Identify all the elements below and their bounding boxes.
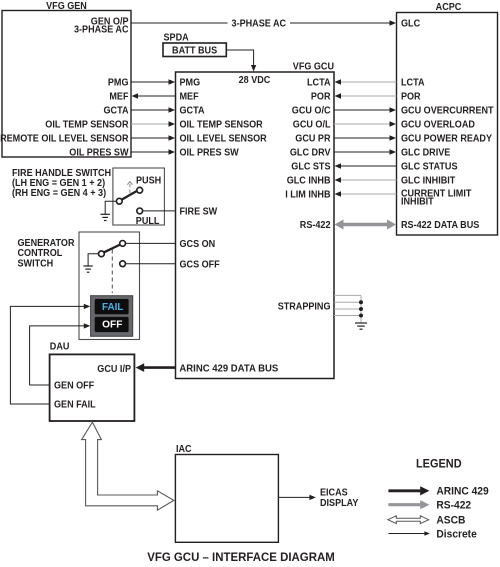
- wire strapping lines: [334, 295, 361, 322]
- indicator FAIL/OFF bezel: [91, 296, 133, 337]
- svg-text:GCU I/P: GCU I/P: [97, 364, 131, 375]
- label PULL: [136, 216, 160, 227]
- svg-text:GEN FAIL: GEN FAIL: [54, 400, 96, 411]
- switch S2 common contact: [99, 251, 105, 257]
- svg-text:OIL PRES SW: OIL PRES SW: [69, 148, 128, 159]
- label VFG GEN pins: [0, 78, 129, 159]
- wire S2 ground lead: [88, 254, 99, 266]
- svg-text:ARINC 429 DATA BUS: ARINC 429 DATA BUS: [179, 364, 278, 375]
- svg-text:RS-422: RS-422: [436, 500, 471, 512]
- label GENERATOR CONTROL SWITCH: [18, 238, 75, 270]
- svg-text:I LIM INHB: I LIM INHB: [285, 190, 331, 201]
- box BATT BUS: [163, 33, 226, 57]
- wire GCTA: [131, 107, 175, 112]
- label DAU pins: [54, 364, 131, 411]
- wire GCS ON: [125, 242, 175, 244]
- svg-text:GLC DRV: GLC DRV: [290, 148, 331, 159]
- svg-text:OIL LEVEL SENSOR: OIL LEVEL SENSOR: [180, 134, 268, 145]
- indicator FAIL cell: [94, 299, 129, 315]
- ground fire switch: [101, 214, 110, 220]
- svg-text:GCTA: GCTA: [104, 106, 129, 117]
- svg-text:GCS OFF: GCS OFF: [180, 260, 220, 271]
- svg-text:POR: POR: [311, 92, 331, 103]
- svg-text:ARINC 429: ARINC 429: [436, 485, 488, 497]
- svg-text:OFF: OFF: [102, 319, 122, 330]
- svg-text:OIL PRES SW: OIL PRES SW: [180, 148, 239, 159]
- wire OIL TEMP SENSOR: [131, 121, 175, 126]
- svg-text:GEN OFF: GEN OFF: [54, 381, 94, 392]
- svg-text:GLC INHIBIT: GLC INHIBIT: [401, 176, 456, 187]
- svg-text:GLC: GLC: [401, 19, 421, 30]
- svg-text:IAC: IAC: [176, 444, 192, 455]
- svg-text:GCTA: GCTA: [180, 106, 205, 117]
- svg-text:POR: POR: [401, 92, 421, 103]
- wire S1 ground lead: [105, 201, 116, 214]
- wire EICAS DISPLAY: [278, 488, 359, 509]
- svg-text:3-PHASE AC: 3-PHASE AC: [74, 25, 129, 36]
- junction strapping dots: [359, 300, 363, 317]
- bus ARINC 429: [136, 363, 176, 372]
- label VFG GCU left pins: [180, 78, 268, 271]
- box fire switch S1: [113, 168, 164, 225]
- svg-text:GLC DRIVE: GLC DRIVE: [401, 148, 450, 159]
- svg-text:FIRE SW: FIRE SW: [180, 207, 218, 218]
- switch S1 push contact: [137, 187, 143, 193]
- wire GEN FAIL to indicator: [10, 304, 90, 404]
- label PUSH: [136, 176, 161, 187]
- switch S1 common contact: [116, 198, 122, 204]
- switch S1 pull contact: [137, 208, 143, 214]
- switch S2 lever: [104, 245, 120, 253]
- svg-text:GCU OVERCURRENT: GCU OVERCURRENT: [401, 106, 494, 117]
- switch S2 off contact: [120, 261, 126, 267]
- label 28 VDC: [239, 75, 271, 86]
- wire GEN OFF to indicator: [30, 323, 91, 385]
- svg-text:PULL: PULL: [136, 216, 160, 227]
- svg-text:MEF: MEF: [180, 92, 199, 103]
- label LEGEND: [416, 457, 462, 471]
- wire PMG: [131, 79, 175, 84]
- svg-text:PMG: PMG: [108, 78, 129, 89]
- svg-text:STRAPPING: STRAPPING: [278, 302, 331, 313]
- svg-text:LCTA: LCTA: [307, 78, 331, 89]
- legend RS-422: [388, 500, 471, 512]
- label ARINC 429 DATA BUS: [179, 364, 278, 375]
- svg-text:ASCB: ASCB: [436, 515, 465, 527]
- svg-text:28 VDC: 28 VDC: [239, 75, 271, 86]
- svg-text:VFG GCU – INTERFACE DIAGRAM: VFG GCU – INTERFACE DIAGRAM: [147, 550, 335, 564]
- wire MEF: [132, 93, 176, 98]
- bus RS-422: [335, 220, 397, 230]
- svg-text:GCU O/C: GCU O/C: [292, 106, 331, 117]
- legend ARINC 429: [388, 485, 488, 497]
- svg-text:LCTA: LCTA: [401, 78, 425, 89]
- switch S2 on contact: [120, 241, 126, 247]
- wire GCU O/L: [334, 121, 396, 126]
- svg-text:SWITCH: SWITCH: [18, 259, 54, 270]
- svg-text:CONTROL: CONTROL: [18, 248, 63, 259]
- title: [147, 550, 335, 564]
- wire FIRE SW: [142, 210, 175, 212]
- svg-text:REMOTE OIL LEVEL SENSOR: REMOTE OIL LEVEL SENSOR: [0, 134, 129, 145]
- svg-text:(RH ENG = GEN 4 + 3): (RH ENG = GEN 4 + 3): [12, 188, 106, 199]
- svg-text:RS-422 DATA BUS: RS-422 DATA BUS: [401, 220, 479, 231]
- wire 28 VDC from BATT BUS: [226, 50, 256, 72]
- label ACPC pins: [401, 19, 494, 232]
- indicator OFF cell: [94, 316, 129, 332]
- svg-text:SPDA: SPDA: [164, 33, 190, 44]
- wire OIL LEVEL SENSOR: [131, 135, 175, 140]
- legend ASCB: [388, 515, 466, 527]
- ground generator control switch: [83, 266, 92, 272]
- svg-text:GCU PR: GCU PR: [295, 134, 331, 145]
- label FIRE HANDLE SWITCH: [12, 168, 111, 199]
- svg-text:FAIL: FAIL: [102, 302, 123, 313]
- wire GCU PR: [334, 135, 396, 140]
- svg-text:GCU O/L: GCU O/L: [293, 120, 331, 131]
- ground strapping: [355, 323, 367, 329]
- svg-text:EICAS: EICAS: [320, 488, 348, 499]
- wire GLC DRV: [334, 149, 396, 154]
- svg-text:3-PHASE AC: 3-PHASE AC: [232, 19, 287, 30]
- box ACPC: [397, 2, 498, 235]
- box IAC: [175, 444, 278, 542]
- box VFG GEN: [2, 1, 131, 157]
- wire I LIM INHB: [335, 191, 397, 196]
- box DAU: [50, 341, 135, 421]
- svg-text:GCU POWER READY: GCU POWER READY: [401, 134, 492, 145]
- svg-text:VFG GEN: VFG GEN: [46, 1, 87, 12]
- switch S1 lever: [122, 191, 137, 200]
- svg-text:ACPC: ACPC: [436, 2, 462, 13]
- svg-text:PUSH: PUSH: [136, 176, 161, 187]
- svg-text:GCS ON: GCS ON: [180, 239, 216, 250]
- svg-text:DISPLAY: DISPLAY: [320, 498, 358, 509]
- svg-text:GLC STS: GLC STS: [291, 162, 330, 173]
- svg-text:INHIBIT: INHIBIT: [401, 197, 434, 208]
- momentary marker S1: [127, 182, 132, 197]
- svg-text:OIL TEMP SENSOR: OIL TEMP SENSOR: [180, 120, 264, 131]
- wire GCU O/C: [334, 107, 396, 112]
- svg-text:OIL TEMP SENSOR: OIL TEMP SENSOR: [45, 120, 129, 131]
- svg-text:LEGEND: LEGEND: [416, 457, 462, 471]
- wire OIL PRES SW: [131, 149, 175, 154]
- legend Discrete: [388, 528, 476, 540]
- svg-text:GLC INHB: GLC INHB: [287, 176, 331, 187]
- wire GLC INHB: [335, 177, 397, 182]
- wire S2 to indicator dashed: [111, 250, 113, 294]
- wire GLC STS: [335, 163, 397, 168]
- svg-text:VFG GCU: VFG GCU: [293, 62, 334, 73]
- wire 3-PHASE AC: [131, 19, 396, 30]
- box VFG GCU U1: [176, 62, 335, 379]
- wire GCS OFF: [125, 263, 175, 265]
- svg-text:Discrete: Discrete: [436, 528, 476, 540]
- box generator control switch S2: [79, 232, 140, 340]
- svg-text:BATT BUS: BATT BUS: [172, 46, 217, 57]
- svg-text:GLC STATUS: GLC STATUS: [401, 162, 458, 173]
- svg-text:GCU OVERLOAD: GCU OVERLOAD: [401, 120, 475, 131]
- svg-text:DAU: DAU: [50, 341, 70, 352]
- svg-text:PMG: PMG: [180, 78, 201, 89]
- label GEN O/P 3-PHASE AC: [74, 17, 129, 36]
- wire LCTA: [335, 79, 397, 84]
- label VFG GCU right pins: [278, 78, 331, 313]
- bus ASCB DAU-IAC: [82, 422, 174, 510]
- svg-text:RS-422: RS-422: [300, 220, 331, 231]
- wire POR: [335, 93, 397, 98]
- svg-text:MEF: MEF: [109, 92, 128, 103]
